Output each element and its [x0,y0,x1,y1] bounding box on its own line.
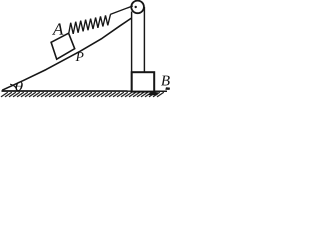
label B [161,76,170,86]
label P [76,52,84,61]
ground [2,90,168,92]
ground hatching [1,92,164,97]
pulley [131,1,144,14]
dark wedge under block B [147,92,159,95]
block A [51,33,75,59]
label theta [15,82,22,91]
pulley axle [135,6,137,8]
ink blot bottom right [165,87,170,90]
spring [69,14,111,34]
string from spring over pulley [110,6,133,15]
incline back post [131,12,133,92]
angle arc [10,84,17,91]
string from pulley to block B [143,7,145,73]
label A [52,23,63,34]
block B [132,72,155,91]
incline surface [2,18,131,90]
